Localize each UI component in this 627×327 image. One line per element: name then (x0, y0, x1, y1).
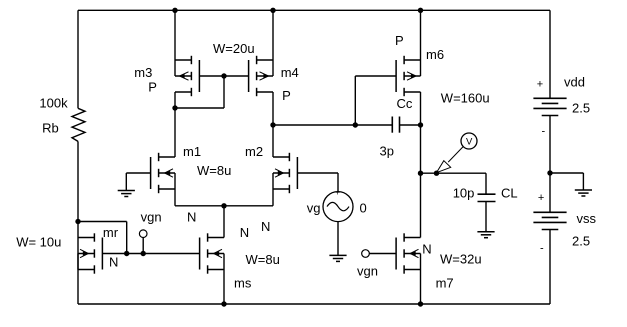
node m6 gate tap (353, 122, 358, 127)
wire midpoint ground drop (582, 173, 584, 190)
node m7 source on rail (418, 301, 423, 306)
wire m3 source drop (174, 10, 176, 60)
wire tail (175, 205, 273, 207)
svg-text:mr: mr (103, 225, 119, 240)
svg-text:m3: m3 (134, 65, 152, 80)
svg-text:m6: m6 (426, 47, 444, 62)
wire ms drain riser (223, 206, 225, 238)
wire m6 gate riser (354, 76, 356, 125)
wire m1 gate ground drop (125, 173, 127, 191)
svg-text:CL: CL (501, 186, 518, 201)
svg-text:P: P (148, 80, 157, 95)
wire m2 source drop (272, 189, 274, 206)
wire gate-drain tie vertical (223, 76, 225, 108)
wire output (421, 172, 487, 174)
svg-text:Cc: Cc (397, 96, 413, 111)
node m6 source on rail (418, 8, 423, 13)
wire m4 drain drop (272, 92, 274, 125)
svg-text:N: N (187, 209, 196, 224)
wire right rail mid (549, 116, 551, 213)
ground m1 gate (118, 190, 135, 192)
resistor Rb (72, 108, 85, 141)
transistor m3 (175, 56, 199, 96)
wire first-to-second stage (273, 124, 392, 126)
transistor mr (78, 233, 102, 273)
transistor m7 (396, 233, 420, 273)
svg-text:vdd: vdd (564, 75, 585, 90)
node m3 source on rail (172, 8, 177, 13)
svg-text:-: - (540, 243, 544, 255)
wire m2 drain riser (272, 125, 274, 157)
transistor m4 (249, 56, 273, 96)
wire m6 gate lead (355, 75, 396, 77)
wire right rail bottom (549, 230, 551, 305)
wire Cc right lead (400, 124, 421, 126)
wire rail-to-gate horizontal (78, 221, 127, 223)
wire m1 source drop (174, 189, 176, 206)
wire vgn stem (142, 238, 144, 254)
node rail tap for mr gate (75, 219, 80, 224)
ground CL (477, 231, 494, 233)
svg-text:N: N (109, 255, 118, 270)
wire m6 source drop (420, 10, 422, 60)
node mr gate junction (124, 251, 129, 256)
transistor m2 (273, 153, 297, 193)
svg-text:W=20u: W=20u (213, 41, 255, 56)
wire rail-to-gate drop (126, 222, 128, 254)
node m3-m4 gate junction (221, 73, 226, 78)
node probe tip (434, 171, 439, 176)
wire CL bottom lead (485, 202, 487, 232)
svg-text:m1: m1 (183, 144, 201, 159)
node m4 source on rail (270, 8, 275, 13)
transistor m6 (396, 56, 420, 96)
node vgn tap junction (141, 251, 146, 256)
svg-text:N: N (422, 242, 431, 257)
wire m1 drain riser (174, 108, 176, 157)
svg-text:m7: m7 (436, 276, 454, 291)
svg-text:vgn: vgn (141, 210, 162, 225)
node Cc output junction (418, 122, 423, 127)
capacitor CL (478, 193, 496, 195)
svg-text:3p: 3p (380, 144, 394, 159)
wire m7 source drop (420, 270, 422, 305)
svg-text:W=8u: W=8u (197, 163, 231, 178)
source vg (323, 192, 353, 222)
svg-text:+: + (538, 192, 544, 204)
wire m6 drain drop (420, 92, 422, 173)
terminal vgn right (362, 250, 370, 258)
wire gate-drain tie horizontal (175, 107, 224, 109)
wire m3 gate lead (199, 75, 224, 77)
wire left rail lower (77, 141, 79, 304)
svg-text:ms: ms (234, 276, 252, 291)
wire m7 drain riser (420, 173, 422, 237)
capacitor Cc (391, 117, 393, 133)
node supply midpoint (547, 170, 552, 175)
node ms source on rail (221, 301, 226, 306)
svg-text:-: - (542, 126, 546, 138)
wire vg bottom lead (337, 222, 339, 256)
node m3 drain junction (172, 105, 177, 110)
svg-text:m2: m2 (245, 144, 263, 159)
wire bottom VSS rail (78, 303, 550, 305)
ground supply midpoint (575, 189, 592, 191)
svg-text:N: N (261, 219, 270, 234)
svg-text:2.5: 2.5 (572, 234, 590, 249)
svg-text:N: N (240, 225, 249, 240)
svg-text:W=160u: W=160u (441, 90, 490, 105)
svg-text:W=32u: W=32u (440, 252, 482, 267)
wire CL top lead (485, 173, 487, 194)
wire right rail top segment (549, 10, 551, 98)
node tail junction (221, 203, 226, 208)
probe V (461, 133, 477, 149)
svg-text:+: + (537, 78, 543, 90)
wire m4 source drop (272, 10, 274, 60)
svg-text:vgn: vgn (357, 264, 378, 279)
wire mr-ms gate wire (102, 253, 199, 255)
battery vss (533, 211, 566, 213)
wire m4 gate lead (224, 75, 249, 77)
transistor m1 (151, 153, 175, 193)
svg-text:P: P (395, 33, 404, 48)
wire midpoint ground tap (550, 172, 583, 174)
svg-text:vg: vg (307, 201, 321, 216)
wire m2 gate lead (297, 172, 338, 174)
wire m7 gate lead (369, 253, 396, 255)
transistor ms (200, 233, 224, 273)
ground vg (329, 254, 346, 256)
wire m1 gate lead (126, 172, 150, 174)
terminal vgn left (139, 230, 147, 238)
svg-text:W=8u: W=8u (246, 252, 280, 267)
svg-text:2.5: 2.5 (572, 101, 590, 116)
node m4-m2 drain junction (270, 122, 275, 127)
wire top VDD rail (78, 9, 550, 11)
wire ms source drop (223, 270, 225, 305)
svg-text:W= 10u: W= 10u (16, 235, 61, 250)
wire left rail upper (Rb top lead) (77, 10, 79, 108)
battery vdd (533, 97, 566, 99)
svg-text:P: P (282, 88, 291, 103)
svg-text:10p: 10p (453, 186, 475, 201)
svg-text:m4: m4 (281, 65, 299, 80)
svg-text:0: 0 (360, 201, 367, 216)
svg-text:vss: vss (577, 211, 597, 226)
node output junction (418, 171, 423, 176)
wire m3 drain drop (174, 92, 176, 108)
svg-text:+: + (335, 188, 340, 197)
svg-text:V: V (466, 137, 473, 148)
wire vg drop (337, 173, 339, 192)
svg-text:100k: 100k (39, 96, 68, 111)
svg-text:Rb: Rb (42, 120, 59, 135)
